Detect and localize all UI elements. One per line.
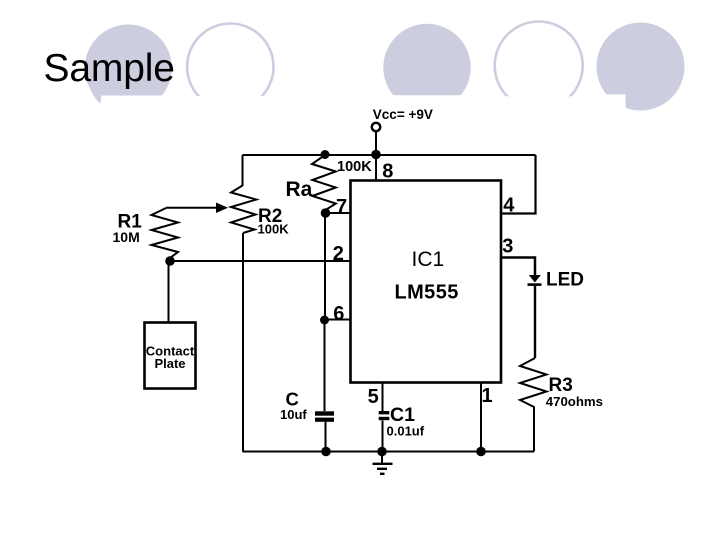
wire R2 bottom to rail <box>242 233 244 452</box>
wire pin 8 <box>375 154 377 181</box>
wire pin 1 <box>480 383 482 452</box>
resistor R2 zigzag <box>231 186 256 234</box>
svg-text:LM555: LM555 <box>395 282 459 304</box>
svg-text:Vcc= +9V: Vcc= +9V <box>373 107 433 122</box>
potentiometer wiper wire <box>166 207 217 209</box>
wire rail to R2 top <box>242 155 244 186</box>
wire bottom rail <box>243 451 535 453</box>
node pin 1 rail <box>476 447 486 457</box>
capacitor C plates <box>315 411 334 422</box>
op-amp IC1 box <box>351 181 502 383</box>
wire Vcc stub <box>375 132 377 155</box>
wire pin 4 <box>501 155 536 214</box>
svg-text:Ra: Ra <box>286 178 313 201</box>
node ground junction <box>377 447 387 457</box>
node R1 bottom <box>165 256 175 266</box>
wire pin6 to capacitor C <box>324 320 326 411</box>
svg-text:LED: LED <box>546 270 584 291</box>
svg-text:3: 3 <box>502 236 513 258</box>
node C bottom <box>321 447 331 457</box>
svg-text:2: 2 <box>333 243 344 265</box>
svg-text:R3: R3 <box>549 375 573 396</box>
wire C1 to ground node <box>382 421 384 452</box>
capacitor C1 plates <box>379 411 390 420</box>
resistor R1 zigzag <box>152 208 179 261</box>
wire pin 2 <box>170 260 351 262</box>
svg-text:8: 8 <box>382 161 393 183</box>
node Vcc junction <box>371 150 381 160</box>
decorative balloons <box>85 22 685 117</box>
node pin 6 junction <box>320 316 329 325</box>
wire pin7 to pin6 <box>324 213 326 320</box>
svg-text:IC1: IC1 <box>412 248 445 271</box>
resistor Ra zigzag <box>312 155 336 213</box>
svg-text:100K: 100K <box>258 222 290 237</box>
Vcc terminal circle <box>372 123 380 131</box>
wire R1 bottom to contact plate <box>168 261 170 322</box>
svg-text:0.01uf: 0.01uf <box>387 424 425 439</box>
ground <box>373 452 393 474</box>
wire C to bottom rail <box>325 422 327 452</box>
node Ra top <box>321 150 330 159</box>
svg-text:5: 5 <box>368 386 379 408</box>
wire pin 5 <box>382 383 384 411</box>
wire LED to R3 <box>534 286 536 358</box>
wire pin 3 <box>501 258 535 276</box>
svg-text:6: 6 <box>333 303 344 325</box>
svg-text:100K: 100K <box>337 159 372 175</box>
svg-text:Plate: Plate <box>154 356 185 371</box>
potentiometer wiper arrowhead <box>216 203 228 214</box>
resistor R3 zigzag <box>520 358 547 411</box>
svg-text:10uf: 10uf <box>280 407 307 422</box>
svg-text:7: 7 <box>336 196 347 218</box>
wire top rail <box>243 154 536 156</box>
contact plate box <box>145 323 196 389</box>
LED D1 <box>528 275 542 286</box>
wire R3 to bottom rail <box>533 411 535 452</box>
svg-text:1: 1 <box>482 385 493 407</box>
wire pin 6 <box>325 319 351 321</box>
wire pin 7 <box>326 212 351 214</box>
svg-text:Sample: Sample <box>44 47 175 90</box>
node pin 7 junction <box>321 208 331 218</box>
svg-text:470ohms: 470ohms <box>546 394 603 409</box>
svg-text:4: 4 <box>503 195 515 217</box>
svg-text:10M: 10M <box>113 229 140 245</box>
